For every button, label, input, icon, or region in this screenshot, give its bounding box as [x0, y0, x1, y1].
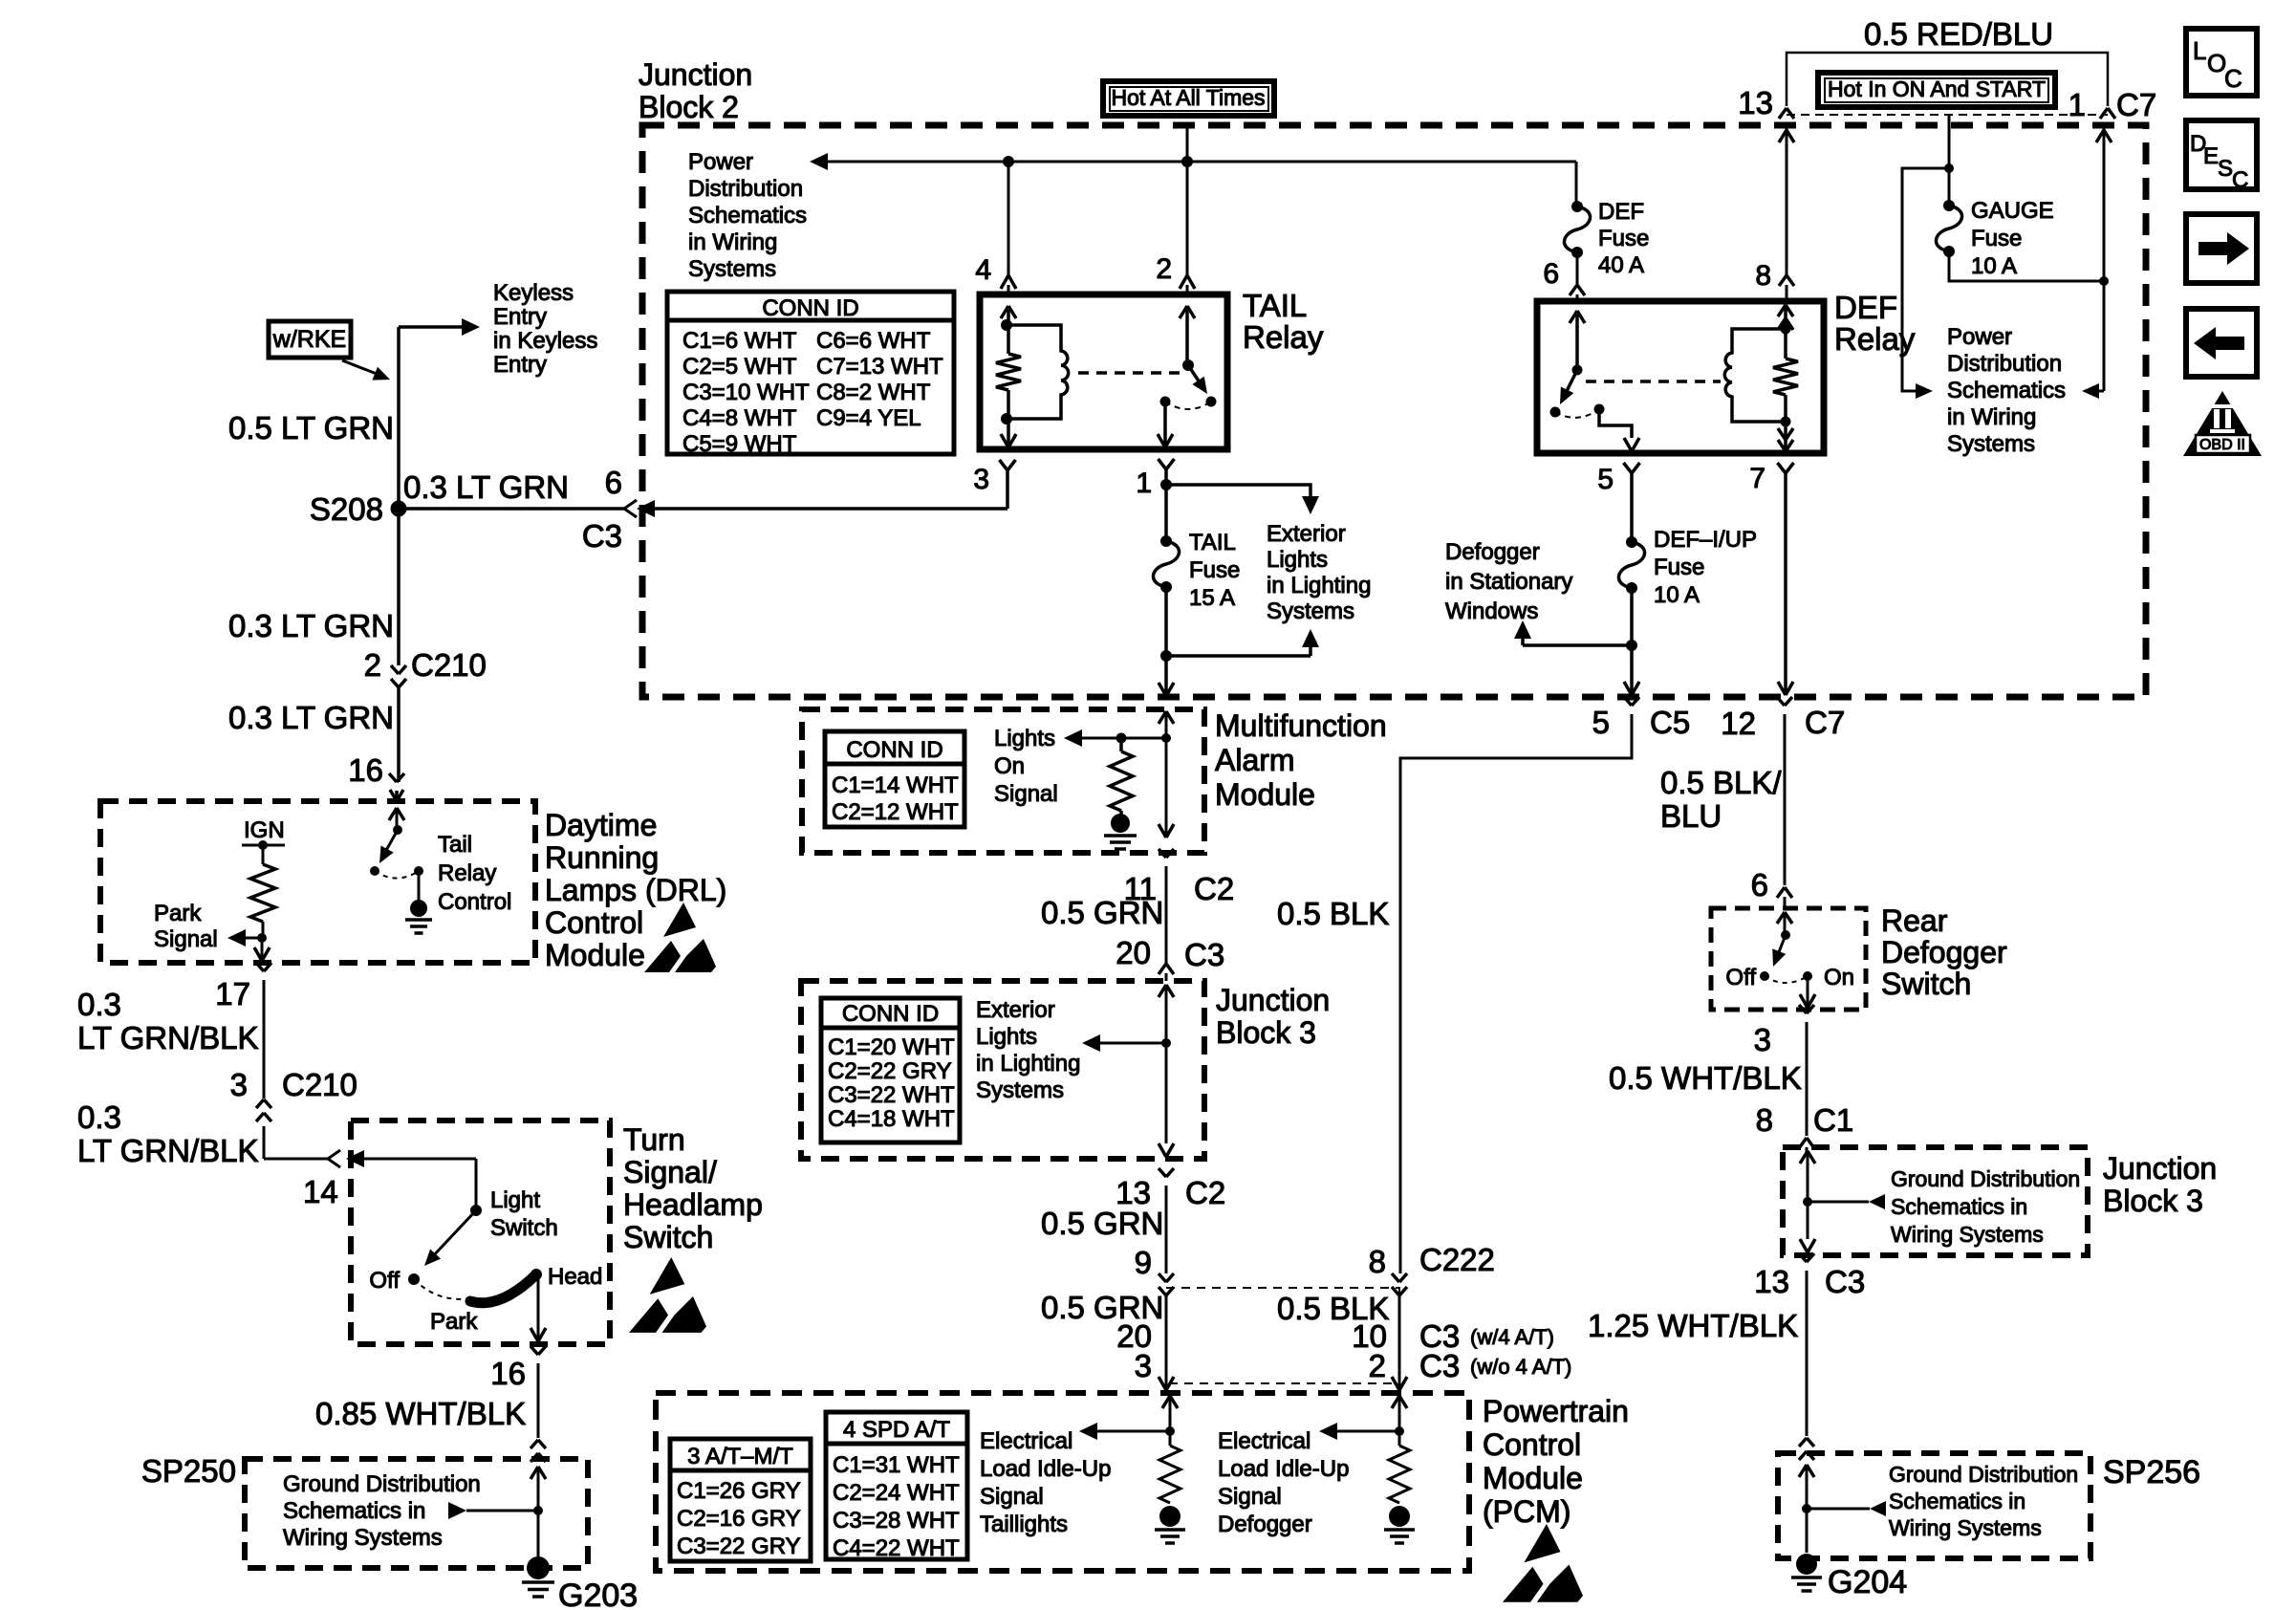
svg-text:C222: C222 — [1419, 1242, 1495, 1277]
TAIL relay internal left arrow up — [1007, 310, 1010, 325]
wire keyless vertical — [397, 327, 401, 665]
svg-text:10 A: 10 A — [1654, 582, 1700, 608]
svg-text:7: 7 — [1749, 463, 1765, 494]
svg-text:C210: C210 — [411, 647, 487, 683]
wire TAIL pin3 to C3 connector — [654, 507, 1007, 511]
node Off contact — [408, 1273, 420, 1285]
branch exterior lights JB3 — [1099, 1042, 1166, 1045]
splice SP250 dashed box — [245, 1459, 588, 1568]
connector 11 C2 — [1159, 849, 1166, 858]
DRL tail relay control switch arm — [384, 830, 398, 854]
svg-text:Turn: Turn — [623, 1122, 685, 1157]
svg-text:C4=18 WHT: C4=18 WHT — [828, 1106, 955, 1132]
branch lights on signal — [1081, 737, 1166, 740]
svg-text:C3=10 WHT: C3=10 WHT — [682, 380, 810, 405]
svg-text:1.25 WHT/BLK: 1.25 WHT/BLK — [1588, 1308, 1798, 1343]
svg-text:Power: Power — [1947, 324, 2012, 350]
svg-text:C1=31 WHT: C1=31 WHT — [833, 1452, 960, 1478]
svg-text:Lights: Lights — [994, 726, 1055, 751]
svg-text:1: 1 — [2069, 87, 2086, 122]
node gauge/C7 junction — [2099, 276, 2109, 286]
wire pin1 to TAIL fuse — [1164, 485, 1168, 541]
svg-text:G203: G203 — [558, 1577, 638, 1610]
svg-text:Park: Park — [430, 1309, 478, 1335]
wire into alarm module — [1164, 656, 1168, 696]
svg-text:Signal: Signal — [980, 1484, 1044, 1510]
connector 17 below DRL — [256, 963, 264, 971]
resistor TAIL relay internal — [1007, 325, 1010, 354]
svg-text:C1: C1 — [1813, 1102, 1853, 1138]
svg-text:2: 2 — [364, 647, 381, 683]
ground G203 — [527, 1556, 550, 1579]
svg-text:Keyless: Keyless — [493, 280, 574, 306]
node gauge branch — [1944, 163, 1954, 173]
wire On contact down — [1807, 976, 1809, 1008]
svg-text:Module: Module — [545, 938, 645, 972]
svg-text:On: On — [1824, 965, 1854, 990]
svg-text:Systems: Systems — [688, 256, 776, 282]
svg-text:Wiring Systems: Wiring Systems — [1891, 1222, 2044, 1247]
wire to turn signal switch — [263, 1126, 266, 1159]
svg-text:TAIL: TAIL — [1189, 530, 1236, 555]
svg-text:in Wiring: in Wiring — [688, 229, 777, 255]
fuse DEF-I/UP 10A — [1626, 536, 1637, 548]
ground DRL internal — [410, 900, 427, 917]
node resistor tap — [1116, 733, 1127, 744]
dashed arc DRL switch — [375, 871, 419, 879]
inductor TAIL relay coil — [1007, 325, 1069, 419]
svg-text:20: 20 — [1116, 935, 1151, 970]
svg-text:C8=2 WHT: C8=2 WHT — [816, 380, 931, 405]
SP256 entry chevron — [1806, 1465, 1809, 1553]
node SP256 junction — [1802, 1504, 1811, 1513]
node TAIL coil bottom — [1001, 413, 1012, 424]
node light switch pivot — [470, 1205, 482, 1216]
wire bus corner to DEF fuse — [1575, 162, 1578, 207]
svg-text:DEF: DEF — [1598, 199, 1644, 225]
wire to PCM left — [1165, 1295, 1168, 1390]
svg-text:Block 3: Block 3 — [1216, 1015, 1316, 1050]
svg-text:0.5 LT GRN: 0.5 LT GRN — [228, 410, 394, 446]
svg-text:SP256: SP256 — [2103, 1454, 2200, 1490]
svg-text:Fuse: Fuse — [1971, 226, 2022, 251]
svg-text:C3: C3 — [582, 518, 622, 554]
node TAIL switch contact left — [1160, 397, 1171, 407]
svg-text:Relay: Relay — [438, 860, 496, 886]
svg-text:Load Idle-Up: Load Idle-Up — [1218, 1456, 1349, 1482]
thick wiper arc Park to Head — [470, 1274, 536, 1303]
wire park signal exit down — [261, 938, 264, 961]
node DEF coil bottom — [1781, 417, 1791, 427]
svg-text:TAIL: TAIL — [1243, 288, 1307, 323]
svg-text:3 A/T–M/T: 3 A/T–M/T — [687, 1444, 793, 1469]
node Off contact defogger — [1760, 971, 1769, 981]
svg-text:C1=14 WHT: C1=14 WHT — [832, 772, 959, 798]
node TAIL switch pivot — [1182, 359, 1194, 371]
svg-text:C6=6 WHT: C6=6 WHT — [816, 328, 931, 354]
branch arrow SP256 — [1807, 1508, 1870, 1511]
relay K1 TAIL Relay box — [980, 294, 1227, 449]
svg-text:Schematics in: Schematics in — [283, 1498, 425, 1524]
svg-text:C9=4 YEL: C9=4 YEL — [816, 405, 921, 431]
svg-text:Power: Power — [688, 149, 753, 175]
svg-text:Systems: Systems — [976, 1077, 1064, 1103]
svg-text:4 SPD A/T: 4 SPD A/T — [843, 1417, 950, 1443]
svg-text:0.5 BLK/: 0.5 BLK/ — [1660, 765, 1782, 800]
svg-text:Multifunction: Multifunction — [1215, 708, 1387, 743]
svg-text:BLU: BLU — [1660, 798, 1722, 834]
svg-text:40 A: 40 A — [1598, 252, 1644, 278]
node PCM left junction — [1165, 1426, 1175, 1436]
svg-text:5: 5 — [1592, 705, 1610, 740]
IGN terminal bar — [242, 844, 285, 847]
svg-text:Defogger: Defogger — [1445, 539, 1540, 565]
resistor alarm module — [1119, 738, 1123, 751]
svg-text:Wiring Systems: Wiring Systems — [283, 1525, 443, 1551]
svg-text:13: 13 — [1738, 85, 1773, 120]
connector 13 C3 — [1799, 1253, 1807, 1262]
svg-text:(w/o 4 A/T): (w/o 4 A/T) — [1470, 1355, 1571, 1379]
resistor PCM right — [1398, 1431, 1401, 1446]
svg-text:C: C — [2232, 167, 2248, 193]
svg-text:LT GRN/BLK: LT GRN/BLK — [77, 1133, 259, 1168]
svg-text:3: 3 — [1135, 1348, 1152, 1383]
connector chevron 14 — [328, 1150, 340, 1159]
thin dashed connector group box — [1166, 1288, 1399, 1383]
svg-text:C1=20 WHT: C1=20 WHT — [828, 1034, 955, 1060]
svg-text:Head: Head — [548, 1264, 602, 1290]
svg-text:Load Idle-Up: Load Idle-Up — [980, 1456, 1111, 1482]
node TAIL switch contact right — [1206, 397, 1217, 407]
svg-text:Systems: Systems — [1947, 431, 2035, 457]
node DEF contact right — [1594, 404, 1605, 415]
svg-text:OBD II: OBD II — [2199, 437, 2245, 453]
svg-text:16: 16 — [490, 1356, 526, 1391]
svg-text:Wiring Systems: Wiring Systems — [1889, 1515, 2042, 1540]
svg-text:Switch: Switch — [623, 1220, 713, 1254]
svg-text:S: S — [2218, 156, 2233, 182]
svg-text:Schematics in: Schematics in — [1891, 1194, 2027, 1219]
svg-text:Signal/: Signal/ — [623, 1155, 717, 1189]
node below DEF-I/UP fuse — [1630, 588, 1634, 645]
TAIL switch pivot wire — [1185, 310, 1189, 365]
ESD symbol DRL — [663, 903, 696, 937]
svg-text:Windows: Windows — [1445, 598, 1538, 624]
svg-text:Daytime: Daytime — [545, 808, 657, 842]
svg-text:Off: Off — [369, 1268, 400, 1294]
svg-text:(w/4 A/T): (w/4 A/T) — [1470, 1325, 1554, 1349]
wire C7 to rear defogger switch — [1784, 727, 1787, 885]
svg-text:LT GRN/BLK: LT GRN/BLK — [77, 1020, 259, 1055]
alarm entry chevron — [1159, 711, 1166, 724]
inductor DEF relay coil — [1724, 329, 1786, 422]
ground PCM right — [1389, 1506, 1410, 1527]
wire C5 jog to 0.5 BLK drop — [1400, 727, 1632, 1273]
svg-text:Control: Control — [1483, 1427, 1581, 1462]
svg-text:6: 6 — [1751, 867, 1768, 903]
icon arrow left box — [2186, 309, 2257, 377]
svg-text:6: 6 — [605, 465, 622, 500]
thin box 0.5 RED/BLU loop — [1787, 53, 2108, 106]
node DEF pivot — [1572, 365, 1583, 376]
svg-text:Exterior: Exterior — [1267, 521, 1346, 547]
ESD symbol turn signal switch — [650, 1257, 685, 1295]
svg-text:2: 2 — [1156, 253, 1172, 285]
svg-text:15 A: 15 A — [1189, 585, 1235, 611]
wire alarm module down — [1165, 738, 1168, 838]
svg-text:C1=26 GRY: C1=26 GRY — [677, 1478, 801, 1504]
svg-text:Electrical: Electrical — [980, 1428, 1072, 1454]
wire keyless top run — [399, 325, 463, 329]
double chevron C222 left — [1159, 1273, 1166, 1282]
node defogger pivot — [1781, 930, 1790, 940]
svg-text:5: 5 — [1597, 464, 1614, 495]
wire TAIL pin4 drop — [1007, 162, 1010, 275]
node DRL switch pivot — [393, 825, 402, 835]
svg-text:Junction: Junction — [639, 57, 752, 92]
svg-text:0.3: 0.3 — [77, 987, 121, 1022]
svg-text:C7: C7 — [1805, 705, 1845, 740]
svg-text:S208: S208 — [310, 491, 383, 527]
svg-text:Lights: Lights — [976, 1024, 1037, 1050]
relay K2 DEF Relay box — [1537, 301, 1824, 453]
svg-text:4: 4 — [975, 254, 991, 286]
svg-text:Defogger: Defogger — [1218, 1512, 1312, 1537]
PCM right entry chevron — [1392, 1396, 1399, 1408]
svg-text:Lamps (DRL): Lamps (DRL) — [545, 873, 726, 907]
svg-text:Control: Control — [545, 905, 643, 940]
CONN ID table JB2 — [667, 292, 954, 454]
ESD symbol PCM — [1524, 1524, 1560, 1562]
wire TAIL pin2 drop — [1186, 125, 1189, 275]
svg-text:in Stationary: in Stationary — [1445, 569, 1572, 595]
svg-text:Headlamp: Headlamp — [623, 1187, 763, 1222]
module DRL dashed box — [100, 801, 535, 963]
icon arrow right box — [2186, 214, 2257, 283]
svg-text:Rear: Rear — [1881, 903, 1948, 938]
svg-text:Schematics: Schematics — [688, 203, 807, 228]
svg-text:C2: C2 — [1185, 1175, 1225, 1210]
svg-text:C2=22 GRY: C2=22 GRY — [828, 1058, 952, 1084]
junction block JB3 right dashed box — [1783, 1147, 2088, 1255]
connector 3 below defogger — [1799, 1005, 1807, 1013]
wire TAIL contact to pin1 with down arrow — [1163, 402, 1167, 447]
svg-text:0.3 LT GRN: 0.3 LT GRN — [228, 700, 394, 735]
svg-text:DEF: DEF — [1834, 290, 1897, 325]
svg-text:Signal: Signal — [994, 781, 1058, 807]
svg-text:C2=12 WHT: C2=12 WHT — [832, 799, 959, 825]
svg-text:in Keyless: in Keyless — [493, 328, 597, 354]
svg-text:8: 8 — [1369, 1244, 1386, 1279]
node DRL contact left — [370, 866, 379, 876]
icon DESC box — [2186, 120, 2257, 189]
icon OBD II triangle — [2183, 391, 2262, 456]
branch electrical load idle-up taillights — [1096, 1430, 1170, 1433]
svg-text:Schematics: Schematics — [1947, 378, 2066, 403]
module Multifunction Alarm Module dashed box — [802, 709, 1204, 853]
connector 16 below switch — [531, 1346, 538, 1355]
branch to power distribution left leg — [1902, 168, 1949, 391]
PCM left entry chevron — [1162, 1396, 1170, 1408]
svg-text:C2=16 GRY: C2=16 GRY — [677, 1506, 801, 1532]
svg-text:C3: C3 — [1825, 1264, 1865, 1299]
svg-text:in Wiring: in Wiring — [1947, 404, 2036, 430]
node PCM right junction — [1395, 1426, 1404, 1436]
svg-text:IGN: IGN — [244, 817, 285, 843]
node JB3 right junction — [1803, 1197, 1812, 1207]
dashed actuation link TAIL — [1078, 371, 1182, 375]
wire head contact down — [537, 1279, 540, 1341]
svg-text:C2: C2 — [1194, 871, 1234, 906]
arrow Park Signal — [245, 937, 262, 940]
module Rear Defogger Switch dashed box — [1711, 908, 1866, 1010]
svg-text:14: 14 — [303, 1174, 338, 1209]
DEF switch arm — [1565, 370, 1577, 395]
svg-text:Module: Module — [1483, 1461, 1583, 1495]
branch electrical load idle-up defogger — [1336, 1430, 1399, 1433]
connector 6 into DEF relay — [1576, 252, 1579, 285]
svg-text:Relay: Relay — [1243, 319, 1324, 355]
branch defogger arrow — [1523, 643, 1632, 647]
svg-text:Powertrain: Powertrain — [1483, 1394, 1629, 1428]
svg-text:C3=22 GRY: C3=22 GRY — [677, 1534, 801, 1559]
node bus/TAIL pin2 — [1181, 156, 1193, 167]
resistor PCM left — [1169, 1431, 1172, 1446]
CONN ID table JB3 — [821, 998, 960, 1142]
svg-text:SP250: SP250 — [141, 1453, 236, 1489]
svg-text:CONN ID: CONN ID — [762, 295, 858, 321]
svg-text:in Lighting: in Lighting — [976, 1051, 1080, 1077]
svg-text:10 A: 10 A — [1971, 253, 2017, 279]
node DEF contact left — [1550, 407, 1561, 418]
svg-text:Block 2: Block 2 — [639, 90, 739, 124]
ground PCM left — [1159, 1506, 1180, 1527]
module Turn Signal/Headlamp Switch dashed box — [351, 1120, 610, 1344]
wire DEF contact to pin5 — [1599, 409, 1632, 438]
svg-text:C7: C7 — [2116, 87, 2156, 122]
svg-text:Schematics in: Schematics in — [1889, 1489, 2025, 1513]
svg-text:3: 3 — [973, 464, 989, 495]
svg-text:0.5 RED/BLU: 0.5 RED/BLU — [1864, 16, 2053, 52]
node park signal junction — [257, 933, 267, 943]
svg-text:Signal: Signal — [1218, 1484, 1282, 1510]
Hot At All Times box — [1103, 81, 1274, 116]
junction block JB3 middle dashed box — [801, 981, 1204, 1159]
table 4 SPD A/T — [826, 1412, 967, 1559]
svg-text:Control: Control — [438, 889, 511, 915]
wire right 0.5 BLK to PCM — [1398, 1295, 1401, 1390]
node JB3 branch — [1161, 1038, 1171, 1048]
node S208 — [391, 501, 407, 517]
JB3 right exit arrow — [1800, 1239, 1808, 1252]
dashed arc TAIL switch throw — [1165, 402, 1211, 409]
svg-text:C3=28 WHT: C3=28 WHT — [833, 1508, 960, 1534]
svg-text:Ground Distribution: Ground Distribution — [1891, 1166, 2080, 1191]
svg-text:0.3 LT GRN: 0.3 LT GRN — [228, 608, 394, 643]
svg-text:C4=22 WHT: C4=22 WHT — [833, 1535, 960, 1561]
SP250 wire entry chevron — [537, 1467, 540, 1556]
double chevron into SP256 — [1799, 1438, 1807, 1447]
node DEF coil top — [1781, 324, 1791, 335]
connector 1 chevron — [2100, 108, 2108, 119]
branch to Exterior Lights arrow — [1166, 654, 1310, 658]
svg-text:0.5 BLK: 0.5 BLK — [1277, 896, 1389, 931]
svg-text:3: 3 — [1754, 1022, 1771, 1057]
svg-text:C: C — [2224, 64, 2242, 93]
svg-text:Entry: Entry — [493, 304, 547, 330]
svg-text:Hot At All Times: Hot At All Times — [1111, 85, 1265, 110]
svg-text:(PCM): (PCM) — [1483, 1494, 1570, 1529]
defogger switch arm — [1777, 935, 1786, 957]
svg-text:0.5 GRN: 0.5 GRN — [1041, 895, 1163, 930]
fuse DEF Fuse 40A — [1571, 201, 1583, 212]
svg-text:Park: Park — [154, 901, 202, 926]
dashed arc light switch — [414, 1279, 470, 1299]
svg-text:Lights: Lights — [1267, 547, 1328, 573]
svg-text:Junction: Junction — [1216, 983, 1330, 1017]
dashed actuation link DEF — [1586, 380, 1721, 383]
ground alarm module — [1111, 814, 1130, 833]
svg-text:Distribution: Distribution — [1947, 351, 2062, 377]
svg-text:C7=13 WHT: C7=13 WHT — [816, 354, 943, 380]
Hot In ON And START box — [1818, 73, 2055, 107]
connector 13 C2 — [1159, 1168, 1166, 1177]
branch arrow SP250 — [466, 1510, 538, 1512]
svg-text:Switch: Switch — [1881, 967, 1971, 1001]
wire C210 to DRL 16 — [397, 687, 401, 782]
svg-text:C2=24 WHT: C2=24 WHT — [833, 1480, 960, 1506]
arrow into JB2 at C3 — [637, 500, 655, 517]
svg-text:Systems: Systems — [1267, 598, 1354, 624]
svg-text:Light: Light — [490, 1187, 540, 1213]
svg-text:Electrical: Electrical — [1218, 1428, 1310, 1454]
fuse TAIL Fuse 15A — [1160, 535, 1172, 547]
svg-text:Switch: Switch — [490, 1215, 558, 1241]
double chevron into SP250 — [531, 1440, 538, 1448]
svg-text:C3=22 WHT: C3=22 WHT — [828, 1082, 955, 1108]
dashed arc defogger switch — [1765, 976, 1808, 983]
svg-text:On: On — [994, 753, 1025, 779]
svg-text:Exterior: Exterior — [976, 997, 1055, 1023]
svg-text:0.5 WHT/BLK: 0.5 WHT/BLK — [1609, 1060, 1802, 1096]
svg-text:17: 17 — [215, 976, 250, 1012]
node SP250 junction — [533, 1506, 543, 1515]
defogger entry chevron — [1777, 912, 1785, 924]
node DRL contact right — [414, 866, 423, 876]
svg-text:C4=8 WHT: C4=8 WHT — [682, 405, 797, 431]
branch pin1 to exterior lights upper arrow — [1166, 485, 1310, 496]
svg-text:Block 3: Block 3 — [2103, 1184, 2203, 1218]
node pin1 branch — [1160, 479, 1172, 490]
svg-text:C210: C210 — [282, 1067, 357, 1102]
svg-text:C3: C3 — [1184, 937, 1224, 972]
wire top power bus — [828, 161, 1576, 163]
splice SP256 dashed box — [1778, 1453, 2090, 1558]
svg-text:3: 3 — [230, 1067, 248, 1102]
JB3 exit arrow down — [1159, 1143, 1166, 1157]
wire light switch feed — [475, 1159, 478, 1210]
svg-text:Signal: Signal — [154, 926, 218, 952]
arrow to Power Distribution (top left) — [810, 153, 828, 170]
svg-text:C2=5 WHT: C2=5 WHT — [682, 354, 797, 380]
module Powertrain Control Module dashed box — [656, 1393, 1469, 1571]
node Head contact — [531, 1269, 542, 1280]
arrow into power distribution right leg — [2099, 390, 2104, 393]
svg-text:6: 6 — [1543, 258, 1559, 290]
svg-text:1: 1 — [1136, 468, 1152, 499]
ground G204 — [1796, 1554, 1817, 1575]
svg-text:8: 8 — [1756, 1102, 1773, 1138]
